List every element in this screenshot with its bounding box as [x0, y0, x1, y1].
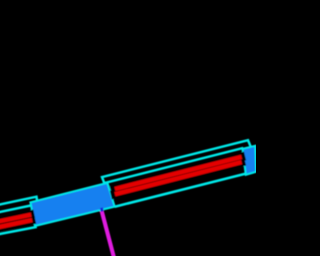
- component U1 left: body outline line C: [0, 227, 37, 235]
- wire: right trace clearance halo 2: [111, 161, 245, 195]
- component U2 right: body outline line B: [104, 148, 243, 183]
- component U2 right: body outline line C: [115, 174, 246, 207]
- component U2 right: outline A with end ticks: [102, 140, 251, 183]
- pad 2 (right blue pad): [242, 146, 256, 175]
- wire: right red F.Cu trace 1: [115, 157, 242, 189]
- wire: right red F.Cu trace 2: [115, 162, 242, 194]
- wire: left trace clearance halo 2: [0, 219, 35, 227]
- component U1 left: body outline line B: [0, 206, 31, 214]
- via V1 (dark blue): [100, 208, 104, 212]
- wire: left red F.Cu trace 1: [0, 215, 31, 223]
- wire: right trace clearance halo 1: [111, 156, 245, 190]
- wire: left red F.Cu trace 2: [0, 220, 32, 228]
- pad 1 (large central blue pad): [30, 183, 114, 226]
- wire: left trace clearance halo 1: [0, 214, 34, 222]
- wire: magenta B.Cu trace from via to board edge: [101, 210, 114, 256]
- component U1 left: silkscreen top line A with end tick: [0, 197, 37, 206]
